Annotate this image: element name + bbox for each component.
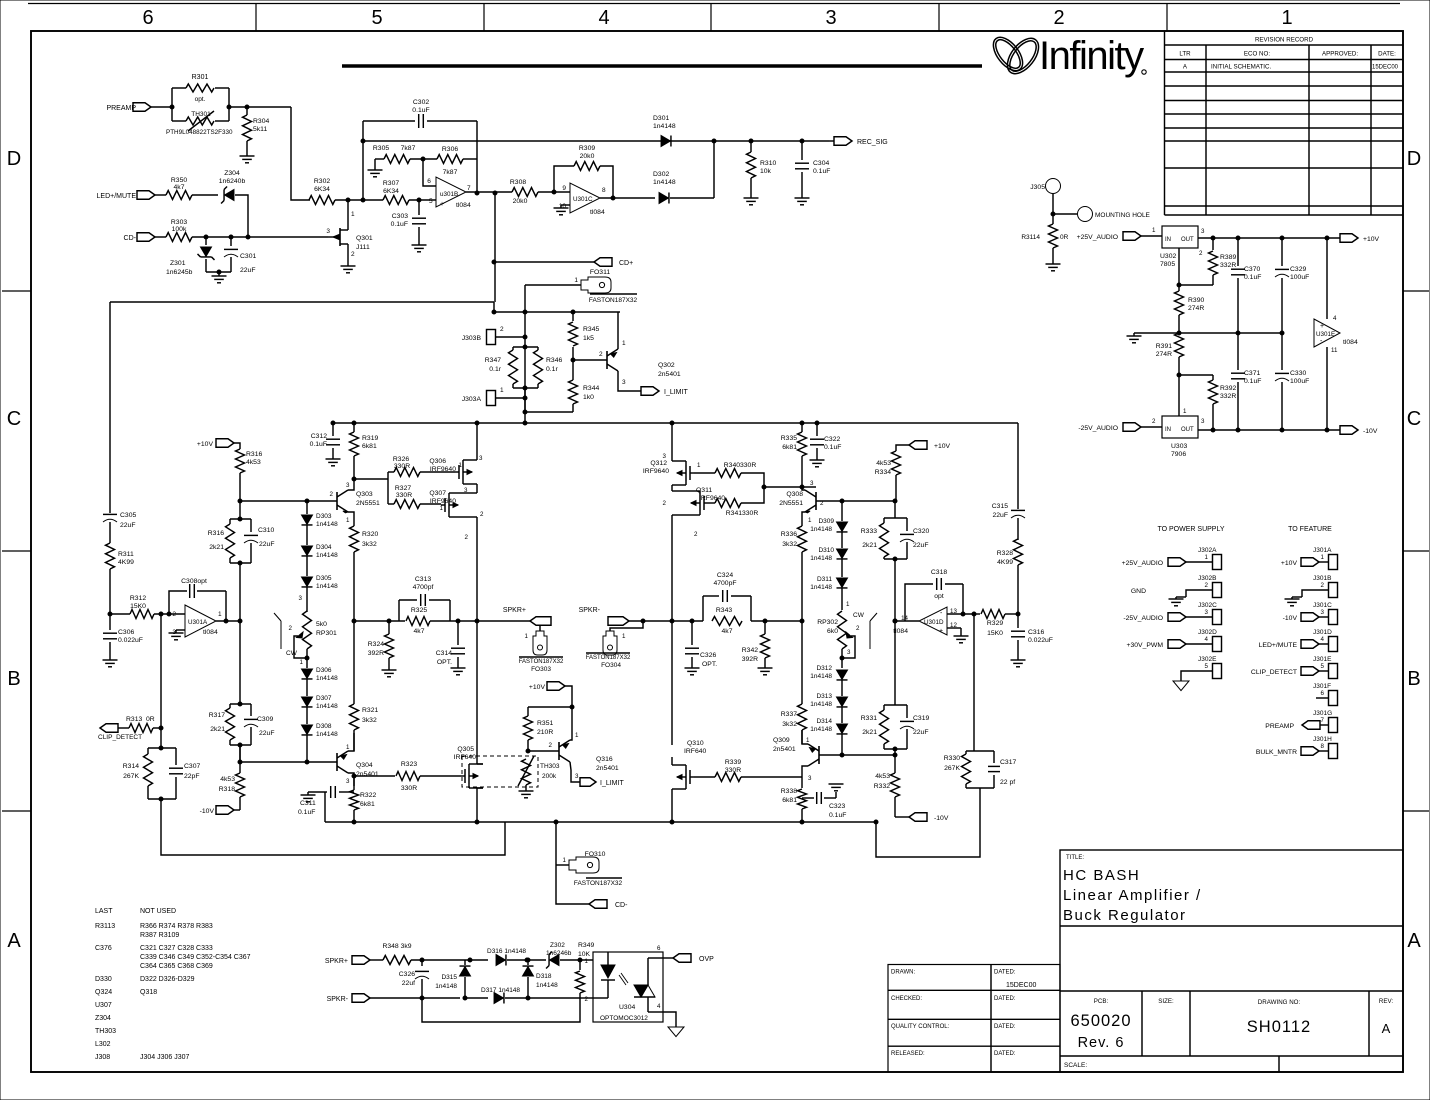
svg-text:330R: 330R (394, 463, 410, 470)
mosfet Q310 (671, 621, 673, 745)
svg-text:2: 2 (172, 611, 176, 618)
dashed thermal box (462, 756, 538, 787)
power bus + (333, 422, 1018, 424)
svg-text:5: 5 (1205, 663, 1209, 670)
svg-text:274R: 274R (1188, 305, 1204, 312)
svg-text:-25V_AUDIO: -25V_AUDIO (1123, 615, 1163, 622)
svg-text:Q311: Q311 (696, 487, 712, 494)
svg-text:D314: D314 (816, 718, 832, 725)
svg-text:6k0: 6k0 (827, 628, 838, 635)
resistor R337 (801, 621, 803, 704)
svg-text:D305: D305 (316, 575, 332, 582)
svg-text:R333: R333 (861, 528, 877, 535)
resistor R349 (579, 960, 581, 970)
svg-text:R312: R312 (130, 595, 146, 602)
resistor R343 (712, 617, 742, 626)
svg-text:opt.: opt. (195, 96, 206, 103)
gnd rail (1134, 332, 1282, 334)
svg-text:Z304: Z304 (95, 1015, 111, 1022)
svg-text:5k11: 5k11 (253, 126, 267, 133)
wire (192, 194, 218, 196)
ground (451, 667, 466, 669)
wire (411, 959, 488, 961)
svg-text:Buck Regulator: Buck Regulator (1063, 907, 1187, 924)
svg-text:2: 2 (856, 625, 860, 632)
terminal -10V right (895, 816, 909, 818)
diode D307 (302, 697, 313, 706)
output node line (354, 620, 405, 622)
opto triac (634, 985, 648, 997)
resistor R389 (1212, 238, 1214, 250)
svg-text:C323: C323 (829, 803, 845, 810)
svg-text:OVP: OVP (699, 956, 714, 963)
svg-text:4k7: 4k7 (722, 628, 733, 635)
resistor R390 (1175, 291, 1184, 315)
terminal REC_SIG (829, 140, 834, 142)
svg-text:R389: R389 (1220, 254, 1236, 261)
svg-text:CD+: CD+ (619, 260, 633, 267)
wire (1052, 194, 1054, 214)
svg-text:3: 3 (299, 595, 303, 602)
svg-text:J301G: J301G (1313, 710, 1332, 717)
resistor R319 (353, 423, 355, 432)
svg-text:MOUNTING HOLE: MOUNTING HOLE (1095, 212, 1151, 219)
svg-text:5k0: 5k0 (316, 621, 327, 628)
svg-text:1n4148: 1n4148 (810, 584, 832, 591)
wire (973, 614, 975, 751)
op-amp U301D (919, 607, 947, 635)
svg-text:REVISION RECORD: REVISION RECORD (1255, 37, 1314, 44)
svg-text:2: 2 (330, 491, 334, 498)
svg-text:650020: 650020 (1070, 1012, 1131, 1030)
svg-text:R349: R349 (578, 942, 594, 949)
svg-text:Z302: Z302 (550, 942, 565, 949)
connector J302E (1213, 664, 1222, 679)
svg-text:1n6246b: 1n6246b (546, 950, 572, 957)
svg-text:0R: 0R (1060, 234, 1069, 241)
svg-text:U307: U307 (95, 1002, 112, 1009)
svg-text:2n5401: 2n5401 (596, 765, 619, 772)
connector J301D (1329, 637, 1338, 652)
mounting hole (1078, 207, 1093, 222)
resistor R324 (388, 621, 390, 634)
svg-text:2n5401: 2n5401 (356, 771, 379, 778)
diode D302 (659, 193, 668, 204)
svg-text:R348 3k9: R348 3k9 (382, 943, 411, 950)
resistor R330 / capacitor C317 pair (966, 750, 994, 752)
svg-text:A: A (1382, 1021, 1391, 1036)
svg-text:J301B: J301B (1313, 575, 1331, 582)
svg-text:0.1uF: 0.1uF (412, 107, 429, 114)
svg-text:4k53: 4k53 (875, 773, 890, 780)
svg-text:+25V_AUDIO: +25V_AUDIO (1077, 234, 1118, 241)
svg-text:1: 1 (1321, 554, 1325, 561)
svg-text:22uF: 22uF (913, 729, 929, 736)
capacitor C312 (332, 423, 334, 436)
capacitor C330 (1281, 333, 1283, 370)
svg-text:D309: D309 (818, 518, 834, 525)
svg-text:-10V: -10V (200, 808, 215, 815)
svg-text:1n4148: 1n4148 (316, 552, 338, 559)
resistor R335 (801, 423, 803, 432)
svg-text:4K99: 4K99 (997, 559, 1013, 566)
svg-text:0R: 0R (146, 716, 155, 723)
svg-text:1: 1 (1183, 408, 1187, 415)
resistor R316 (236, 449, 245, 473)
resistor R302 (309, 196, 335, 205)
svg-text:SCALE:: SCALE: (1064, 1062, 1087, 1069)
svg-text:R327: R327 (395, 485, 411, 492)
svg-text:TO FEATURE: TO FEATURE (1288, 526, 1332, 533)
OVP: terminal SPKR+ (352, 956, 370, 965)
svg-text:3: 3 (346, 482, 350, 489)
terminal OVP (673, 954, 691, 963)
svg-text:R301: R301 (192, 74, 209, 81)
wire (507, 959, 546, 961)
ground stub (375, 158, 384, 160)
resistor R327 (394, 500, 420, 509)
svg-text:CW: CW (286, 650, 298, 657)
svg-text:R347: R347 (485, 357, 501, 364)
resistor R304 (243, 115, 252, 141)
svg-text:LAST: LAST (95, 908, 113, 915)
svg-text:TITLE:: TITLE: (1066, 855, 1084, 861)
svg-text:332R: 332R (1220, 262, 1236, 269)
terminal CD- out (589, 900, 607, 909)
wire (1326, 238, 1328, 319)
svg-text:CHECKED:: CHECKED: (891, 996, 922, 1002)
ground (103, 659, 118, 661)
wire (370, 997, 460, 999)
svg-text:3: 3 (326, 228, 330, 235)
resistor R332 (894, 749, 896, 773)
wire C302 feedback riser (362, 121, 364, 200)
svg-text:SPKR+: SPKR+ (503, 607, 526, 614)
capacitor C323 (802, 797, 814, 799)
diode D314 (837, 724, 848, 733)
svg-text:-10V: -10V (1283, 615, 1298, 622)
svg-text:C313: C313 (415, 576, 431, 583)
wire (363, 120, 415, 122)
svg-text:7805: 7805 (1160, 261, 1175, 268)
svg-text:U304: U304 (619, 1004, 635, 1011)
ground (326, 458, 341, 460)
wire (154, 613, 185, 615)
svg-text:D313: D313 (816, 693, 832, 700)
svg-text:1: 1 (585, 958, 589, 965)
svg-text:C311: C311 (300, 800, 316, 807)
zener Z301 (205, 237, 207, 245)
ground (1046, 263, 1061, 265)
resistor R339 (694, 776, 715, 778)
resistor R321 (353, 621, 355, 704)
svg-text:TO POWER SUPPLY: TO POWER SUPPLY (1157, 526, 1224, 533)
diode chain D309-D311 (841, 501, 843, 521)
wire (363, 199, 383, 201)
capacitor C304 (801, 141, 803, 160)
diode chain D303-D305 (306, 501, 308, 514)
svg-text:Q301: Q301 (356, 235, 373, 242)
resistor R325 (406, 617, 430, 626)
capacitor C326 (421, 960, 423, 966)
svg-text:D310: D310 (818, 547, 834, 554)
svg-text:Rev. 6: Rev. 6 (1078, 1035, 1125, 1051)
svg-text:2N5551: 2N5551 (356, 500, 380, 507)
wire (151, 106, 172, 108)
svg-text:SPKR-: SPKR- (579, 607, 601, 614)
svg-text:6K34: 6K34 (383, 188, 399, 195)
svg-text:C370: C370 (1244, 266, 1260, 273)
svg-text:1n4148: 1n4148 (810, 526, 832, 533)
resistor R320 (350, 526, 359, 552)
svg-text:2n5401: 2n5401 (658, 371, 681, 378)
resistor R316b / capacitor C310 pair (230, 518, 251, 520)
svg-text:4k7: 4k7 (414, 628, 425, 635)
connector J302A (1213, 555, 1222, 570)
svg-text:+10V: +10V (1281, 560, 1298, 567)
svg-text:1: 1 (525, 633, 529, 640)
svg-text:J302A: J302A (1198, 547, 1217, 554)
connector J302B (1213, 583, 1222, 598)
svg-text:0.1uF: 0.1uF (813, 168, 830, 175)
svg-text:CW: CW (853, 612, 865, 619)
svg-text:C301: C301 (240, 253, 256, 260)
svg-text:1: 1 (808, 517, 812, 524)
thermistor TH301 (186, 117, 214, 125)
svg-text:1n4148: 1n4148 (316, 703, 338, 710)
svg-text:NOT USED: NOT USED (140, 908, 176, 915)
svg-text:tl084: tl084 (893, 628, 908, 635)
wire (192, 236, 328, 238)
svg-text:Q312: Q312 (650, 460, 667, 467)
svg-text:R336: R336 (781, 531, 797, 538)
svg-text:20k0: 20k0 (513, 198, 528, 205)
svg-text:5: 5 (1321, 663, 1325, 670)
svg-text:3: 3 (479, 455, 483, 462)
svg-text:R313: R313 (126, 716, 142, 723)
svg-text:U301E: U301E (1316, 331, 1335, 338)
thermistor TH303 (522, 759, 531, 785)
faston FO303 (539, 625, 541, 631)
capacitor C322 (815, 421, 819, 425)
approvals table (888, 965, 1060, 1073)
svg-text:D304: D304 (316, 544, 332, 551)
terminal CD+ (594, 258, 612, 267)
svg-text:J302E: J302E (1198, 656, 1217, 663)
mosfet Q311 (699, 495, 701, 511)
svg-text:R344: R344 (583, 385, 599, 392)
resistor R306 (437, 155, 463, 164)
svg-text:B: B (1407, 668, 1420, 690)
svg-text:R343: R343 (716, 607, 732, 614)
svg-text:274R: 274R (1156, 351, 1172, 358)
resistor R301 (186, 84, 214, 92)
capacitor C313 / resistor R325 pair (398, 600, 400, 621)
svg-text:22 pf: 22 pf (1000, 779, 1015, 786)
svg-text:TH303: TH303 (540, 763, 560, 770)
svg-text:2: 2 (1152, 418, 1156, 425)
svg-text:2: 2 (549, 742, 553, 749)
title underline (342, 64, 982, 68)
svg-text:1: 1 (351, 211, 355, 218)
column C315 (1017, 423, 1019, 509)
svg-text:1: 1 (346, 517, 350, 524)
svg-text:LED+/MUTE: LED+/MUTE (1259, 642, 1298, 649)
svg-text:0.022uF: 0.022uF (118, 637, 143, 644)
resistor R312 (130, 610, 154, 619)
svg-text:D312: D312 (816, 665, 832, 672)
svg-text:Q303: Q303 (356, 491, 373, 498)
svg-text:0.1uF: 0.1uF (391, 221, 408, 228)
svg-text:1n4148: 1n4148 (435, 983, 457, 990)
connector J303B (487, 330, 496, 345)
wire (1178, 248, 1180, 291)
connector J301C (1329, 610, 1338, 625)
svg-text:J302C: J302C (1198, 602, 1217, 609)
svg-text:R311: R311 (118, 551, 134, 558)
svg-text:9: 9 (562, 185, 566, 192)
svg-text:22uF: 22uF (240, 267, 256, 274)
svg-text:R391: R391 (1156, 343, 1172, 350)
resistor R311 (106, 543, 115, 569)
svg-text:R346: R346 (546, 357, 562, 364)
wire (528, 997, 580, 999)
svg-text:1: 1 (622, 633, 626, 640)
svg-text:J305: J305 (1030, 184, 1045, 191)
gate resistors R326 R327 (354, 478, 388, 480)
resistor R342 (764, 621, 766, 634)
svg-text:C304: C304 (813, 160, 829, 167)
svg-text:SPKR+: SPKR+ (325, 958, 348, 965)
svg-text:R328: R328 (997, 550, 1013, 557)
diode D306 (302, 669, 313, 678)
resistor R322 (353, 776, 355, 790)
svg-text:4700pf: 4700pf (413, 584, 434, 591)
ground (685, 667, 700, 669)
svg-text:3: 3 (810, 480, 814, 487)
svg-text:2: 2 (351, 251, 355, 258)
svg-text:C364 C365 C368 C369: C364 C365 C368 C369 (140, 963, 213, 970)
svg-text:1: 1 (806, 737, 810, 744)
capacitor C314 (457, 621, 459, 645)
svg-text:Q308: Q308 (786, 491, 803, 498)
output line right (629, 620, 703, 622)
svg-text:A: A (1407, 930, 1421, 952)
wire (160, 614, 162, 748)
mosfet Q312 (685, 465, 687, 481)
svg-text:1: 1 (846, 601, 850, 608)
capacitor C302 (418, 114, 420, 128)
svg-text:3: 3 (1321, 609, 1325, 616)
svg-text:1: 1 (218, 611, 222, 618)
svg-text:2: 2 (465, 534, 469, 541)
svg-text:7: 7 (1321, 717, 1325, 724)
svg-text:R303: R303 (171, 219, 187, 226)
svg-text:FASTON187X32: FASTON187X32 (589, 297, 638, 304)
svg-text:C312: C312 (311, 433, 327, 440)
svg-text:10K: 10K (578, 951, 591, 958)
svg-text:J303A: J303A (462, 396, 482, 403)
svg-text:1n4148: 1n4148 (316, 583, 338, 590)
svg-text:C308opt: C308opt (181, 578, 207, 585)
terminal CLIP_DETECT (100, 724, 118, 733)
svg-text:392R: 392R (368, 650, 384, 657)
terminal SPKR+ (530, 617, 551, 626)
connector J302C (1213, 610, 1222, 625)
svg-text:Q306: Q306 (429, 458, 446, 465)
svg-text:PREAMP: PREAMP (106, 105, 136, 112)
svg-text:R366 R374 R378 R383: R366 R374 R378 R383 (140, 923, 213, 930)
opto light arrows (619, 975, 626, 985)
svg-text:15DEC00: 15DEC00 (1372, 65, 1399, 71)
chassis ground (1181, 671, 1212, 681)
svg-text:D303: D303 (316, 513, 332, 520)
svg-text:Q305: Q305 (457, 746, 474, 753)
svg-text:R309: R309 (579, 145, 595, 152)
svg-text:OPTOMOC3012: OPTOMOC3012 (600, 1015, 648, 1022)
svg-text:2: 2 (1199, 250, 1203, 257)
resistor R313 (118, 727, 129, 729)
svg-text:+30V_PWM: +30V_PWM (1127, 642, 1164, 649)
svg-text:R338: R338 (781, 788, 797, 795)
svg-text:3: 3 (1201, 228, 1205, 235)
svg-text:D330: D330 (95, 976, 112, 983)
svg-text:R316: R316 (246, 451, 262, 458)
svg-text:R306: R306 (442, 146, 458, 153)
svg-text:0.1uF: 0.1uF (824, 444, 841, 451)
svg-text:R304: R304 (253, 118, 269, 125)
mosfet Q305 (476, 621, 478, 764)
wire (410, 158, 437, 160)
svg-text:RP302: RP302 (817, 619, 838, 626)
terminal -10V left (234, 809, 240, 811)
svg-text:200k: 200k (542, 773, 557, 780)
svg-text:Q324: Q324 (95, 989, 112, 996)
svg-text:C319: C319 (913, 715, 929, 722)
svg-text:Infinity: Infinity (1039, 34, 1144, 78)
svg-text:C324: C324 (717, 572, 733, 579)
svg-text:1: 1 (500, 387, 504, 394)
wire (155, 194, 166, 196)
svg-text:IRF640: IRF640 (454, 754, 477, 761)
svg-text:R334: R334 (875, 469, 891, 476)
svg-text:J301H: J301H (1313, 736, 1332, 743)
svg-text:1: 1 (1205, 554, 1209, 561)
svg-text:U301C: U301C (573, 196, 593, 203)
svg-text:4K99: 4K99 (118, 559, 134, 566)
svg-text:22uF: 22uF (259, 730, 275, 737)
svg-text:330R: 330R (401, 785, 417, 792)
wire (556, 865, 589, 904)
wire (894, 559, 896, 705)
svg-text:1: 1 (1281, 7, 1292, 29)
svg-text:C302: C302 (413, 99, 429, 106)
wire (600, 166, 613, 198)
svg-text:CD-: CD- (615, 902, 628, 909)
capacitor C326 opt (691, 621, 693, 645)
wire stub (1316, 697, 1328, 699)
ground bus bottom (325, 821, 876, 823)
ground (795, 197, 810, 199)
resistor R317 / capacitor C309 pair (230, 703, 251, 705)
svg-text:tl084: tl084 (203, 629, 218, 636)
wire (670, 197, 714, 199)
svg-text:R390: R390 (1188, 297, 1204, 304)
svg-text:1: 1 (459, 462, 463, 469)
svg-text:APPROVED:: APPROVED: (1322, 51, 1358, 58)
wire (538, 191, 570, 193)
svg-text:20k0: 20k0 (580, 153, 595, 160)
